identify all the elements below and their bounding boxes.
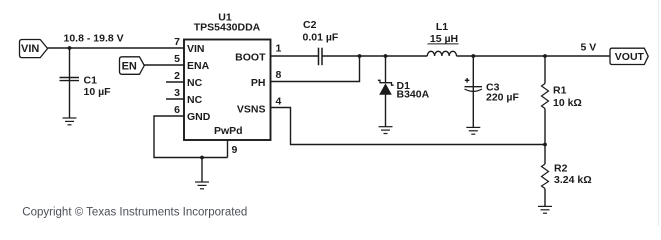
svg-text:15 µH: 15 µH [430,33,458,45]
svg-text:7: 7 [174,36,180,48]
svg-text:VIN: VIN [21,43,39,55]
svg-text:5 V: 5 V [581,41,597,53]
svg-text:VSNS: VSNS [237,104,266,116]
svg-text:B340A: B340A [397,89,430,101]
svg-text:L1: L1 [436,21,448,33]
svg-text:GND: GND [187,111,211,123]
svg-text:NC: NC [187,77,203,89]
svg-text:C1: C1 [84,75,98,87]
svg-text:3.24 kΩ: 3.24 kΩ [554,174,592,186]
svg-text:R1: R1 [553,85,567,97]
svg-text:Copyright © Texas Instruments: Copyright © Texas Instruments Incorporat… [22,206,247,218]
svg-text:NC: NC [187,94,203,106]
svg-text:8: 8 [276,69,282,81]
svg-text:ENA: ENA [187,60,210,72]
svg-text:10 µF: 10 µF [84,86,112,98]
svg-text:TPS5430DDA: TPS5430DDA [194,22,261,34]
svg-text:BOOT: BOOT [235,51,266,63]
svg-text:PH: PH [251,77,266,89]
svg-text:220 µF: 220 µF [486,92,519,104]
svg-text:5: 5 [174,53,180,65]
svg-text:1: 1 [276,43,282,55]
svg-text:C2: C2 [303,19,317,31]
svg-text:0.01 µF: 0.01 µF [303,31,339,43]
svg-text:6: 6 [174,104,180,116]
svg-text:10.8 - 19.8 V: 10.8 - 19.8 V [64,33,124,45]
svg-text:10 kΩ: 10 kΩ [553,97,582,109]
svg-text:2: 2 [174,70,180,82]
svg-text:PwPd: PwPd [214,125,243,137]
svg-text:VOUT: VOUT [615,51,645,63]
svg-text:R2: R2 [554,163,568,175]
svg-text:9: 9 [232,144,238,156]
svg-text:VIN: VIN [187,43,205,55]
svg-text:EN: EN [122,60,137,72]
svg-text:4: 4 [276,95,282,107]
svg-text:3: 3 [174,87,180,99]
